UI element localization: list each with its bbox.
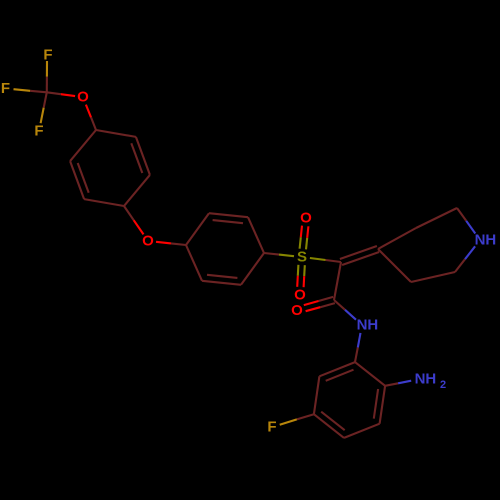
svg-text:NH: NH: [415, 371, 437, 388]
svg-text:O: O: [77, 89, 89, 106]
svg-text:F: F: [1, 80, 10, 97]
svg-text:NH: NH: [357, 317, 379, 334]
svg-text:O: O: [291, 302, 303, 319]
svg-text:O: O: [300, 210, 312, 227]
svg-text:F: F: [43, 47, 52, 64]
svg-text:O: O: [142, 233, 154, 250]
svg-text:S: S: [297, 249, 307, 266]
svg-text:NH: NH: [475, 232, 497, 249]
svg-text:2: 2: [440, 379, 446, 391]
svg-text:F: F: [267, 419, 276, 436]
svg-text:F: F: [34, 123, 43, 140]
